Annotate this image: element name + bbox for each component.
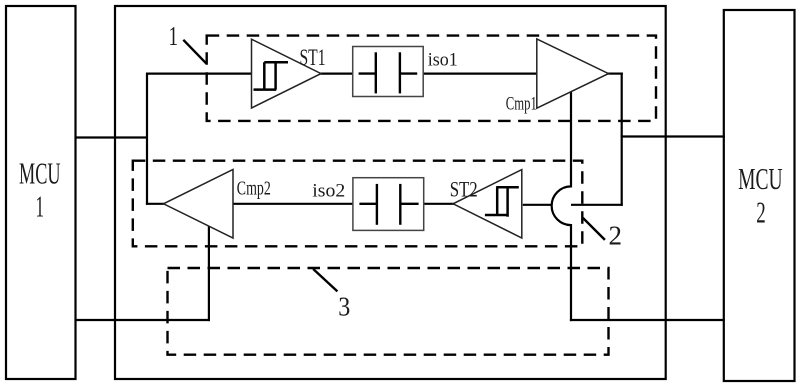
svg-text:ST1: ST1 [300, 45, 326, 70]
isolation circuit outer box [115, 6, 666, 379]
dashed box 3 (common area) [168, 268, 609, 355]
dashed box 1 (first isolation channel) [207, 36, 656, 121]
svg-text:iso2: iso2 [312, 181, 345, 202]
wire ST1 output to iso1 [320, 72, 354, 74]
wire branch to MCU2 (row 1 receive) [621, 135, 725, 137]
svg-text:1: 1 [169, 21, 179, 51]
schmitt trigger ST1 [252, 39, 326, 108]
wire vertical junction left [146, 73, 148, 205]
MCU 2 box [724, 10, 795, 381]
wire ST2 output to iso2 [354, 203, 454, 205]
comparator Cmp2 [164, 170, 271, 239]
svg-text:MCU: MCU [19, 156, 61, 191]
label 2 leader line [583, 218, 605, 240]
isolation element iso1 [353, 47, 458, 97]
wire iso2 to Cmp2 input [233, 203, 422, 205]
MCU 1 box [6, 6, 76, 379]
wire MCU2 bottom [570, 319, 725, 321]
schmitt trigger ST2 [450, 170, 522, 238]
svg-text:MCU: MCU [738, 161, 783, 196]
wire vertical from Cmp1 output down to row 2 [621, 73, 623, 206]
svg-text:2: 2 [609, 221, 623, 251]
svg-text:1: 1 [36, 189, 45, 224]
label 1 leader line [183, 40, 206, 64]
svg-text:ST2: ST2 [450, 176, 478, 201]
comparator Cmp1 [506, 39, 609, 114]
svg-text:2: 2 [756, 195, 766, 230]
svg-text:Cmp1: Cmp1 [506, 93, 537, 114]
wire MCU1 to vertical junction (row 1 tap) [75, 136, 149, 138]
wire vertical from Cmp1 lower input with hop over row 2 [552, 91, 571, 322]
svg-text:Cmp2: Cmp2 [237, 179, 271, 200]
wire Cmp2 output to left vertical [146, 203, 165, 205]
dashed box 2 (second isolation channel) [133, 161, 583, 247]
label 3 leader line [313, 269, 337, 291]
svg-text:iso1: iso1 [428, 49, 458, 70]
wire into ST1 input [146, 72, 253, 74]
isolation element iso2 [312, 178, 423, 231]
wire MCU1 bottom [75, 319, 211, 321]
svg-text:3: 3 [338, 292, 350, 322]
wire row 2 from vertical to hop [571, 204, 623, 206]
wire row 2 left of hop into ST2 input [523, 204, 552, 206]
wire Cmp2 lower input down to MCU1 bottom wire [208, 227, 210, 322]
wire iso1 to Cmp1 input [422, 72, 538, 74]
wire Cmp1 output right [608, 72, 623, 74]
